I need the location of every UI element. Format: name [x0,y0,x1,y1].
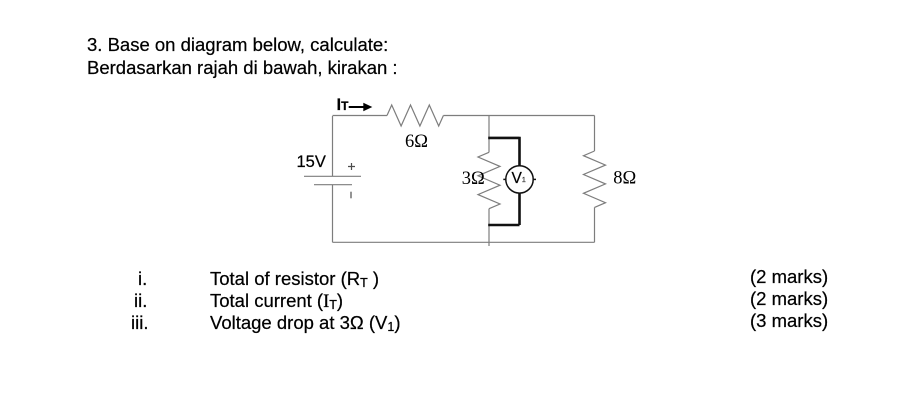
wire right vertical bottom (8Ω to bottom-right corner) [594,207,596,242]
voltmeter right terminal tick [533,178,536,180]
voltmeter U1 top lead (thick) [488,137,519,166]
wire left vertical bottom (battery bottom to bottom-left corner) [332,185,334,243]
wire top segment left (corner to 6Ω) [333,115,388,117]
voltmeter U1 bottom lead (thick) [488,193,519,225]
voltmeter U1 body circle [506,166,533,193]
question text english [87,34,388,56]
battery minus terminal mark [350,192,352,199]
battery B1 15V top plate (positive, long) [304,175,361,177]
wire bottom horizontal [333,241,595,243]
svg-text:3Ω: 3Ω [462,169,485,189]
svg-text:6Ω: 6Ω [405,132,428,152]
list row i [138,268,147,290]
resistor R3 8Ω [584,151,606,207]
voltmeter label V1 [512,171,526,190]
label 15V [297,154,326,170]
list row ii [134,290,147,312]
resistor R2 3Ω [478,152,500,208]
wire middle branch bottom (3Ω to bottom wire, small overhang) [488,209,490,246]
voltmeter left terminal tick [503,178,506,180]
battery B1 15V bottom plate (negative, short) [314,184,352,186]
battery plus terminal mark [348,163,355,170]
wire top segment right (6Ω to top-right corner, through node A) [443,115,594,117]
current arrow IT [349,106,365,108]
wire middle branch top (node A down to 3Ω) [488,116,490,153]
wire right vertical top (corner to 8Ω) [594,116,596,152]
wire left vertical (battery top to top-left corner) [332,116,334,176]
svg-text:8Ω: 8Ω [613,169,636,189]
question text malay [87,57,398,79]
label IT (total current) [337,97,349,114]
resistor R1 6Ω [387,105,443,126]
list row iii [131,312,148,334]
